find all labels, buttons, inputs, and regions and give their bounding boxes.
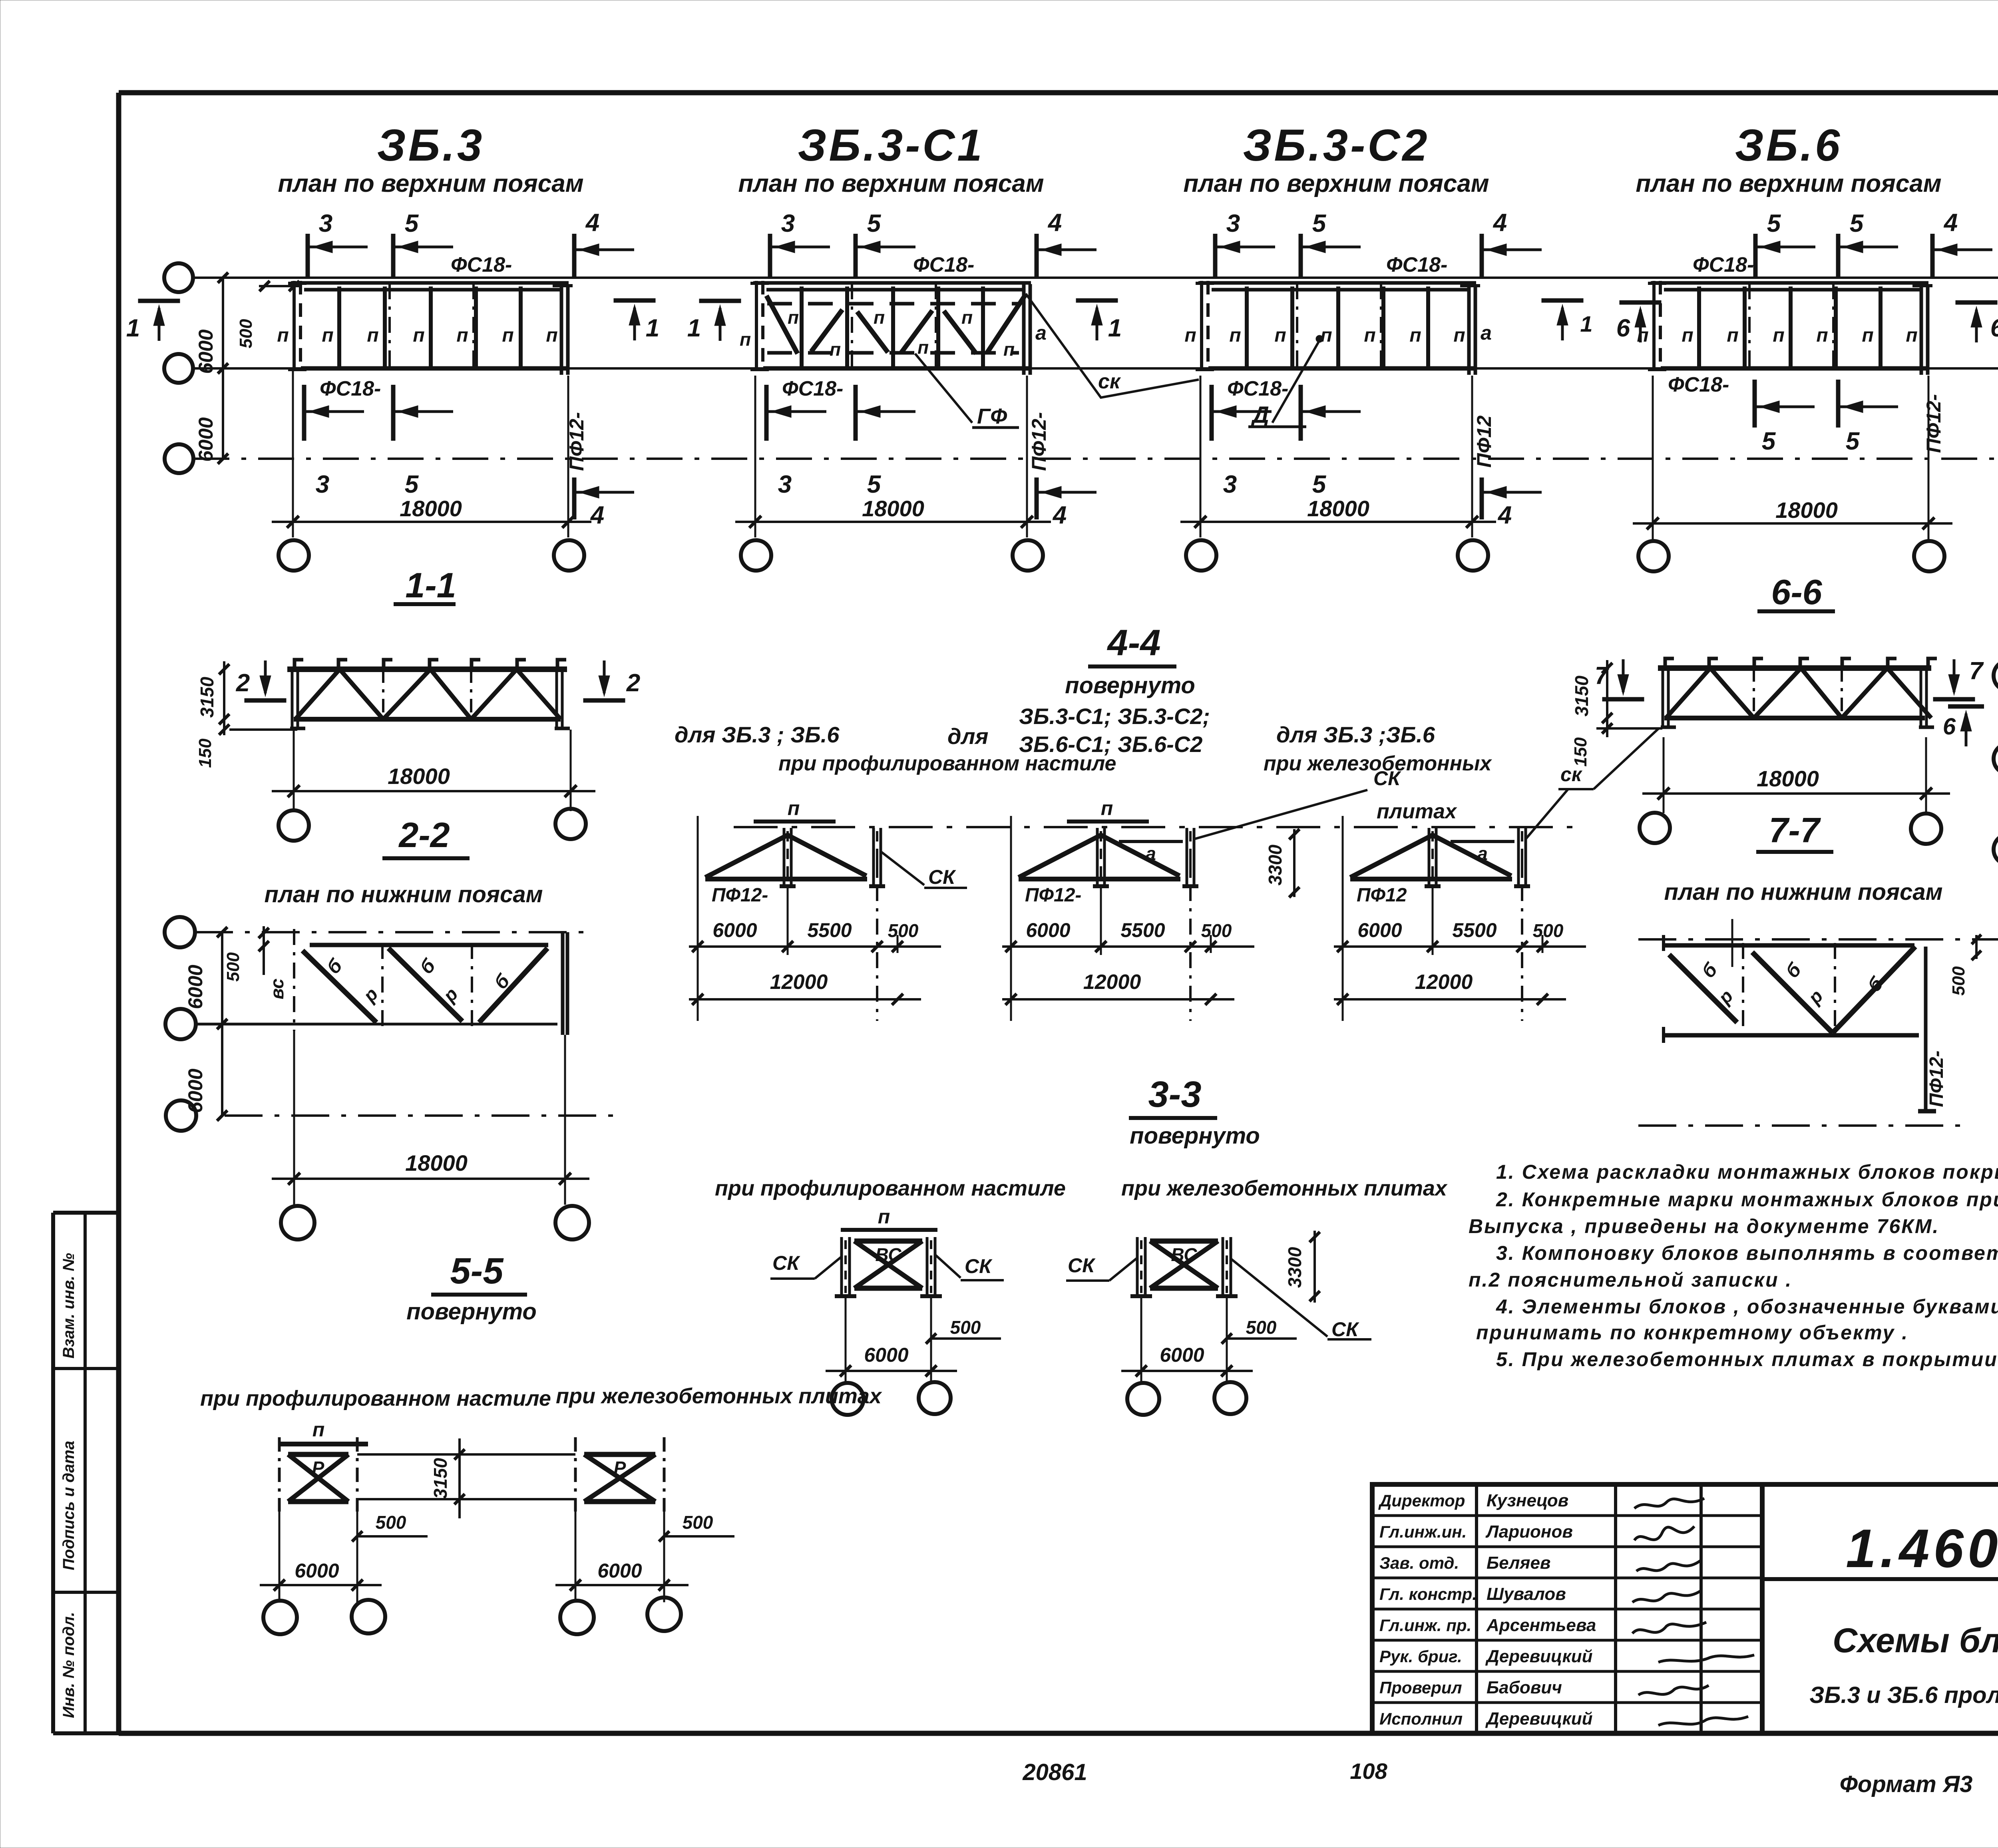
svg-text:п: п xyxy=(1229,325,1241,346)
section 5-5 sub2 dims xyxy=(555,1501,734,1602)
svg-text:п: п xyxy=(1816,325,1828,346)
svg-text:повернуто: повернуто xyxy=(1065,672,1195,698)
plan ZB.3-C1 mark 4 below right xyxy=(1037,477,1097,529)
svg-text:п: п xyxy=(1773,325,1784,346)
svg-text:ск: ск xyxy=(1098,370,1121,393)
notes text block xyxy=(1469,1161,1998,1371)
svg-text:для ЗБ.3 ;ЗБ.6: для ЗБ.3 ;ЗБ.6 xyxy=(1276,722,1435,747)
section 6-6 dim 18000 xyxy=(1642,737,1950,813)
section 1-1 dim 18000 xyxy=(272,730,595,811)
svg-text:п: п xyxy=(961,307,973,328)
section 2-2 dim 18000 xyxy=(272,1031,589,1205)
plan ZB.6-C2 grid circles xyxy=(1994,660,1998,865)
svg-text:план по верхним поясам: план по верхним поясам xyxy=(738,170,1044,197)
plan ZB.3-C2 mark 4 below right xyxy=(1482,477,1542,529)
plan ZB.3 mark 4 below right xyxy=(574,477,634,529)
svg-text:6000: 6000 xyxy=(1026,919,1070,941)
svg-text:20861: 20861 xyxy=(1022,1759,1087,1785)
svg-text:ВС: ВС xyxy=(875,1244,901,1265)
svg-text:Зав. отд.: Зав. отд. xyxy=(1379,1554,1459,1572)
svg-text:ГФ: ГФ xyxy=(977,404,1007,428)
plan ZB.3 label PF12 right column xyxy=(565,412,588,471)
svg-text:Взам. инв. №: Взам. инв. № xyxy=(60,1253,78,1359)
svg-text:7-7: 7-7 xyxy=(1769,810,1821,850)
svg-text:5: 5 xyxy=(867,471,882,498)
section 4-4 subtitle povernuto xyxy=(1065,672,1195,698)
title block signatures xyxy=(1632,1498,1754,1725)
svg-text:п: п xyxy=(878,1205,890,1228)
svg-text:1.460.3-19-81 КМ: 1.460.3-19-81 КМ xyxy=(1846,1518,1998,1579)
svg-text:1: 1 xyxy=(646,314,659,342)
svg-text:п: п xyxy=(1274,325,1286,346)
bottom codes xyxy=(1022,1758,1972,1797)
svg-text:3: 3 xyxy=(1226,210,1240,237)
plan ZB.3-C1 label FS18 above xyxy=(913,253,974,277)
section 2-2 label xyxy=(382,815,470,858)
plan ZB.3-C2 label a xyxy=(1481,322,1492,344)
section 1-1 bottom circles xyxy=(279,809,586,841)
plan ZB.3 label FS18 below xyxy=(320,377,381,400)
svg-text:18000: 18000 xyxy=(1775,497,1838,523)
section 7-7 label xyxy=(1756,810,1833,852)
svg-text:4: 4 xyxy=(1047,209,1062,237)
section 2-2 grid lines xyxy=(195,932,615,1116)
svg-text:а: а xyxy=(1477,843,1488,864)
svg-text:1: 1 xyxy=(1108,314,1122,342)
plan ZB.3-C1 block xyxy=(750,281,1031,375)
svg-text:а: а xyxy=(1146,843,1156,864)
svg-text:п: п xyxy=(1101,797,1113,820)
svg-text:1: 1 xyxy=(687,314,701,342)
svg-text:п: п xyxy=(917,337,929,358)
svg-text:18000: 18000 xyxy=(1307,496,1369,521)
plan ZB.3-C2 marks above 3,5,4 xyxy=(1215,209,1542,278)
svg-text:7: 7 xyxy=(1969,657,1984,685)
svg-text:6000: 6000 xyxy=(184,1068,207,1113)
svg-text:для: для xyxy=(947,724,988,749)
svg-text:Кузнецов: Кузнецов xyxy=(1487,1491,1568,1510)
left stamp column boxes xyxy=(53,1213,119,1733)
svg-text:6000: 6000 xyxy=(184,965,207,1009)
svg-text:ФС18-: ФС18- xyxy=(913,253,974,277)
svg-text:ЗБ.3-С1: ЗБ.3-С1 xyxy=(798,120,984,170)
svg-text:6000: 6000 xyxy=(1357,919,1402,941)
svg-text:п: п xyxy=(1862,325,1873,346)
svg-text:ПФ12-: ПФ12- xyxy=(1922,394,1945,453)
section 3-3 sub1 p overbar xyxy=(841,1205,937,1230)
plan ZB.6 view mark 6 right xyxy=(1956,302,1998,342)
svg-text:3: 3 xyxy=(1223,471,1237,498)
svg-text:вс: вс xyxy=(267,979,287,999)
section 1-1 view marks 2 xyxy=(236,660,287,700)
plan ZB.6 title xyxy=(1636,120,1941,197)
grid axis line A (top) xyxy=(193,278,1998,459)
svg-text:п: п xyxy=(1184,325,1196,346)
svg-text:ФС18-: ФС18- xyxy=(1227,377,1288,400)
section 3-3 sub2 cross brace VS xyxy=(1130,1237,1238,1296)
section 5-5 captions xyxy=(200,1384,882,1410)
svg-text:ЗБ.3-С2: ЗБ.3-С2 xyxy=(1243,120,1429,170)
plan ZB.3 bottom circles xyxy=(279,540,584,571)
section 3-3 label xyxy=(1129,1074,1217,1118)
plan ZB.3-C1 label a xyxy=(1035,322,1047,344)
plan ZB.6 view marks 1 and 6 left xyxy=(1542,300,1593,340)
svg-text:п: п xyxy=(788,307,799,328)
svg-text:12000: 12000 xyxy=(770,971,828,994)
svg-text:ПФ12: ПФ12 xyxy=(1357,885,1407,906)
svg-text:п: п xyxy=(546,325,557,346)
svg-text:6: 6 xyxy=(1990,314,1998,342)
section 3-3 sub2 SK lower-right leader xyxy=(1231,1259,1371,1341)
svg-text:5: 5 xyxy=(1850,210,1864,237)
section 6-6 SK leader xyxy=(1558,728,1659,789)
svg-text:3300: 3300 xyxy=(1284,1247,1305,1288)
section 3-3 sub1 cross brace VS xyxy=(835,1237,942,1296)
svg-text:Ларионов: Ларионов xyxy=(1485,1522,1573,1542)
svg-text:2: 2 xyxy=(236,669,250,697)
section 3-3 sub2 circles xyxy=(1127,1382,1246,1415)
svg-text:ЗБ.3: ЗБ.3 xyxy=(377,120,485,170)
plan ZB.3 section marks above: 3,5,4 xyxy=(308,209,634,278)
svg-text:4: 4 xyxy=(1497,501,1512,529)
svg-text:6000: 6000 xyxy=(1160,1344,1204,1366)
plan ZB.3-C1 title xyxy=(738,120,1044,197)
svg-text:п: п xyxy=(830,339,841,360)
section 5-5 sub1 dims xyxy=(260,1501,428,1602)
svg-text:6000: 6000 xyxy=(864,1344,908,1366)
svg-text:СК: СК xyxy=(1068,1254,1096,1277)
svg-text:СК: СК xyxy=(928,866,956,888)
title block role/name texts xyxy=(1378,1491,1596,1729)
svg-text:план по нижним поясам: план по нижним поясам xyxy=(265,881,543,907)
svg-text:3. Компоновку блоков вы: 3. Компоновку блоков выполнять в соответ… xyxy=(1496,1242,1998,1264)
title block name of sheet xyxy=(1809,1621,1998,1708)
svg-text:18000: 18000 xyxy=(862,496,924,521)
section 7-7 subtitle xyxy=(1664,879,1943,905)
plan ZB.3-C1 marks above 3,5,4 xyxy=(770,209,1097,278)
svg-text:1-1: 1-1 xyxy=(405,565,456,605)
plan ZB.3-C1 dim 18000 xyxy=(735,376,1051,537)
svg-text:ЗБ.3 и ЗБ.6 пролетом 18м: ЗБ.3 и ЗБ.6 пролетом 18м xyxy=(1809,1682,1998,1708)
svg-text:500: 500 xyxy=(236,319,256,348)
svg-text:Рук. бриг.: Рук. бриг. xyxy=(1379,1647,1462,1666)
svg-text:п: п xyxy=(1003,339,1015,360)
plan ZB.3-C2 title xyxy=(1183,120,1489,197)
svg-text:СК: СК xyxy=(1331,1318,1359,1341)
section 4-4 label xyxy=(1088,623,1176,666)
svg-text:п: п xyxy=(322,325,333,346)
svg-text:5: 5 xyxy=(1846,428,1860,455)
svg-text:п.2 пояснительной: п.2 пояснительной записки . xyxy=(1469,1269,1792,1291)
grid circles left xyxy=(164,263,193,473)
svg-text:ПФ12-: ПФ12- xyxy=(712,885,768,906)
section 2-2 grid circles xyxy=(165,917,196,1131)
section 7-7 bracing block xyxy=(1664,919,1936,1111)
svg-text:3150: 3150 xyxy=(197,676,217,718)
svg-text:ПФ12-: ПФ12- xyxy=(1926,1050,1947,1107)
svg-text:6000: 6000 xyxy=(195,329,217,374)
svg-text:4-4: 4-4 xyxy=(1107,623,1161,663)
section 6-6 view marks 7 xyxy=(1595,659,1644,699)
svg-text:Р: Р xyxy=(614,1458,626,1478)
svg-text:п: п xyxy=(367,325,378,346)
svg-text:п: п xyxy=(277,325,289,346)
section 5-5 sub2 cross brace R xyxy=(575,1437,664,1512)
plan ZB.3-C2 bottom circles xyxy=(1186,540,1488,571)
section 5-5 sub1 p overbar xyxy=(280,1418,368,1444)
svg-text:5: 5 xyxy=(1312,210,1327,237)
svg-text:при профилированном настиле: при профилированном настиле xyxy=(200,1386,551,1410)
section 2-2 subtitle xyxy=(265,881,543,907)
grid axis line C (bottom chain) xyxy=(193,458,1998,460)
svg-text:3150: 3150 xyxy=(430,1458,451,1499)
svg-text:ЗБ.3-С1; ЗБ.3-С2;: ЗБ.3-С1; ЗБ.3-С2; xyxy=(1019,704,1210,729)
grid axis line B (middle) xyxy=(193,367,1998,370)
svg-text:Деревицкий: Деревицкий xyxy=(1485,1709,1593,1729)
svg-text:150: 150 xyxy=(195,738,215,768)
plan ZB.3-C1 marks below 3,5 xyxy=(766,385,915,498)
title block document number xyxy=(1846,1518,1998,1579)
svg-text:Исполнил: Исполнил xyxy=(1379,1709,1463,1728)
svg-text:ФС18-: ФС18- xyxy=(451,253,512,277)
svg-text:2-2: 2-2 xyxy=(398,815,450,855)
svg-text:3-3: 3-3 xyxy=(1148,1074,1202,1115)
svg-text:500: 500 xyxy=(1533,920,1564,941)
svg-text:при железобетонных плитах: при железобетонных плитах xyxy=(1121,1176,1448,1200)
plan ZB.6 dim 18000 xyxy=(1633,376,1952,539)
svg-text:п: п xyxy=(413,325,424,346)
svg-text:500: 500 xyxy=(1246,1317,1277,1338)
svg-text:150: 150 xyxy=(1571,737,1590,767)
plan ZB.6 label PF12 xyxy=(1922,394,1945,453)
plan ZB.6 label FS18 below xyxy=(1668,373,1729,396)
svg-text:4: 4 xyxy=(1943,209,1958,237)
svg-text:18000: 18000 xyxy=(405,1150,468,1176)
section 5-5 sub2 circles xyxy=(560,1597,681,1634)
svg-text:принимать по конкретному: принимать по конкретному объекту . xyxy=(1476,1321,1908,1344)
section 2-2 bottom circles xyxy=(281,1206,589,1239)
section 7-7 grid chain lines xyxy=(1638,939,1998,1126)
svg-text:3: 3 xyxy=(778,471,792,498)
svg-text:3: 3 xyxy=(316,471,329,498)
svg-text:Гл.инж.ин.: Гл.инж.ин. xyxy=(1379,1522,1467,1541)
plan ZB.3 block xyxy=(288,281,573,375)
svg-text:6-6: 6-6 xyxy=(1771,572,1822,612)
plan ZB.3 section marks below: 3,5 xyxy=(304,385,453,498)
svg-text:ФС18-: ФС18- xyxy=(782,377,843,400)
section 3-3 sub1 circles xyxy=(832,1382,951,1415)
section 4-4 chain axis line xyxy=(734,826,1578,828)
svg-text:Гл. констр.: Гл. констр. xyxy=(1379,1585,1477,1603)
svg-text:плитах: плитах xyxy=(1377,800,1457,823)
svg-text:Выпуска , приведены на доку: Выпуска , приведены на документе 76КМ. xyxy=(1469,1215,1939,1237)
svg-text:500: 500 xyxy=(950,1317,981,1338)
svg-text:п: п xyxy=(1409,325,1421,346)
svg-text:5500: 5500 xyxy=(807,919,852,941)
plan ZB.6 block xyxy=(1648,281,1932,375)
section 3-3 subtitle povernuto xyxy=(1130,1123,1260,1149)
svg-text:п: п xyxy=(1682,325,1693,346)
plan ZB.3-C1 label PF12 xyxy=(1028,412,1050,471)
section 5-5 sub1 cross brace R xyxy=(279,1437,357,1512)
section 1-1 label xyxy=(394,565,456,605)
svg-text:18000: 18000 xyxy=(1757,766,1819,791)
section 4-4 sub-diagram 2 (C1/C2 blocks) xyxy=(1002,767,1401,1021)
plan ZB.3-C2 block xyxy=(1196,281,1480,375)
svg-text:Проверил: Проверил xyxy=(1379,1678,1462,1697)
svg-text:5: 5 xyxy=(1762,428,1776,455)
plan ZB.3 view mark 1 left xyxy=(126,301,180,342)
svg-text:Беляев: Беляев xyxy=(1487,1553,1551,1573)
svg-text:ВС: ВС xyxy=(1171,1244,1197,1265)
svg-text:Подпись и дата: Подпись и дата xyxy=(60,1441,78,1570)
svg-text:6000: 6000 xyxy=(712,919,757,941)
plan ZB.3 label FS18 above xyxy=(451,253,512,277)
svg-text:12000: 12000 xyxy=(1083,971,1141,994)
plan ZB.6 marks below 5,5 xyxy=(1755,380,1898,455)
svg-text:ФС18-: ФС18- xyxy=(1693,253,1754,277)
plan ZB.6 bottom circles xyxy=(1638,541,1944,571)
section 2-2 element letters b/r xyxy=(267,955,514,1007)
svg-text:СК: СК xyxy=(965,1255,993,1277)
svg-text:18000: 18000 xyxy=(388,764,450,789)
section 5-5 sub1 circles xyxy=(263,1600,385,1634)
svg-text:при профилированном настиле: при профилированном настиле xyxy=(778,752,1116,775)
svg-text:1. Схема раскладки монтажн: 1. Схема раскладки монтажных блоков покр… xyxy=(1496,1161,1998,1183)
svg-text:6000: 6000 xyxy=(597,1560,642,1582)
svg-text:Р: Р xyxy=(312,1458,324,1478)
plan ZB.6 marks above 5,5,4 xyxy=(1755,209,1992,278)
svg-text:п: п xyxy=(502,325,513,346)
svg-text:5: 5 xyxy=(1312,471,1327,498)
plan ZB.3 title xyxy=(278,120,583,197)
svg-text:п: п xyxy=(874,307,885,328)
svg-text:6: 6 xyxy=(1943,714,1956,740)
svg-text:план по верхним поясам: план по верхним поясам xyxy=(1636,170,1941,197)
svg-text:3: 3 xyxy=(319,210,332,237)
svg-text:СК: СК xyxy=(772,1252,800,1274)
svg-text:5: 5 xyxy=(405,210,419,237)
svg-text:2: 2 xyxy=(626,669,640,697)
svg-text:108: 108 xyxy=(1350,1758,1387,1784)
section 6-6 bottom circles xyxy=(1640,813,1941,844)
svg-text:п: п xyxy=(788,797,800,820)
svg-text:5: 5 xyxy=(405,471,419,498)
svg-text:п: п xyxy=(1453,325,1465,346)
plan ZB.3-C1 view mark 1 left xyxy=(687,301,741,342)
svg-text:500: 500 xyxy=(1949,966,1968,996)
section 6-6 label xyxy=(1757,572,1835,612)
plan ZB.3-C1 bottom circles xyxy=(741,540,1043,571)
svg-text:Схемы блоков: Схемы блоков xyxy=(1833,1621,1998,1660)
section 1-1 dims 3150/150 xyxy=(195,661,297,768)
svg-text:18000: 18000 xyxy=(400,496,462,521)
section 2-2 dims 500/6000/6000 xyxy=(184,926,269,1121)
svg-text:ПФ12-: ПФ12- xyxy=(1028,412,1050,471)
svg-text:ПФ12: ПФ12 xyxy=(1473,416,1495,468)
svg-text:5-5: 5-5 xyxy=(450,1251,504,1291)
svg-text:6000: 6000 xyxy=(295,1560,339,1582)
section 2-2 bracing block xyxy=(294,929,567,1035)
svg-text:Д: Д xyxy=(1250,402,1269,428)
svg-text:Бабович: Бабович xyxy=(1487,1678,1562,1697)
svg-text:при профилированном настиле: при профилированном настиле xyxy=(715,1176,1066,1200)
svg-text:п: п xyxy=(740,329,751,350)
plan ZB.6-C2 view mark 6 left xyxy=(1943,706,1984,746)
plan ZB.3 dim 500 xyxy=(236,281,300,348)
svg-text:3: 3 xyxy=(781,210,795,237)
plan ZB.3-C1 SK leader to joint xyxy=(1026,294,1199,398)
svg-text:Инв. № подл.: Инв. № подл. xyxy=(60,1612,78,1718)
section 3-3 sub1 dims xyxy=(826,1296,1001,1383)
svg-text:ФС18-: ФС18- xyxy=(1668,373,1729,396)
svg-text:а: а xyxy=(1481,322,1492,344)
svg-text:ФС18-: ФС18- xyxy=(320,377,381,400)
svg-text:4: 4 xyxy=(590,501,604,529)
svg-text:Шувалов: Шувалов xyxy=(1487,1584,1566,1604)
plan ZB.3-C1 label FS18 below xyxy=(782,377,843,400)
section 4-4 applicability captions xyxy=(675,704,1492,823)
section 5-5 subtitle povernuto xyxy=(406,1299,537,1325)
svg-text:500: 500 xyxy=(888,920,919,941)
section 3-3 sub2 dims xyxy=(1121,1296,1297,1383)
svg-text:2. Конкретные марки монтаж: 2. Конкретные марки монтажных блоков при… xyxy=(1496,1188,1998,1211)
svg-text:5: 5 xyxy=(1767,210,1781,237)
svg-text:для ЗБ.3 ; ЗБ.6: для ЗБ.3 ; ЗБ.6 xyxy=(675,722,840,747)
svg-text:6: 6 xyxy=(1616,314,1630,342)
svg-text:1: 1 xyxy=(126,314,140,342)
section 4-4 sub-diagram 3 (concrete slabs) xyxy=(1334,789,1586,1021)
section 7-7 right dims 500/6000/6000 xyxy=(1949,934,1998,1132)
svg-text:план по верхним поясам: план по верхним поясам xyxy=(1183,170,1489,197)
section 4-4 sub-diagram 1 (profiled deck) xyxy=(689,816,967,1021)
svg-text:3150: 3150 xyxy=(1571,675,1592,716)
svg-text:повернуто: повернуто xyxy=(1130,1123,1260,1149)
svg-text:Гл.инж. пр.: Гл.инж. пр. xyxy=(1379,1616,1471,1635)
svg-text:п: п xyxy=(1727,325,1738,346)
svg-text:п: п xyxy=(1906,325,1917,346)
svg-text:ПФ12-: ПФ12- xyxy=(1025,885,1081,906)
section 5-5 label xyxy=(431,1251,527,1295)
section 3-3 sub2 dim 3300 xyxy=(1284,1231,1320,1303)
svg-text:а: а xyxy=(1035,322,1047,344)
svg-text:Деревицкий: Деревицкий xyxy=(1485,1647,1593,1666)
svg-text:п: п xyxy=(312,1418,325,1441)
svg-text:Директор: Директор xyxy=(1378,1491,1465,1510)
section 6-6 truss xyxy=(1658,658,1937,727)
svg-text:3300: 3300 xyxy=(1265,844,1286,885)
svg-text:500: 500 xyxy=(1201,920,1232,941)
svg-text:5500: 5500 xyxy=(1452,919,1497,941)
svg-text:п: п xyxy=(1320,325,1332,346)
section 3-3 sub1 SK labels xyxy=(770,1252,1004,1280)
svg-text:4: 4 xyxy=(585,209,599,237)
svg-text:ЗБ.6: ЗБ.6 xyxy=(1735,120,1843,170)
svg-text:план по верхним поясам: план по верхним поясам xyxy=(278,170,583,197)
plan ZB.3-C2 label FS18 below xyxy=(1227,377,1288,400)
svg-text:500: 500 xyxy=(683,1512,713,1533)
svg-text:п: п xyxy=(1637,325,1648,346)
svg-text:при железобетонных плитах: при железобетонных плитах xyxy=(556,1384,882,1408)
svg-text:ФС18-: ФС18- xyxy=(1386,253,1447,277)
plan ZB.3 dim 18000 xyxy=(272,368,591,537)
plan ZB.3-C2 marks below 3,5 xyxy=(1212,385,1361,498)
section 3-3 sub2 SK label left xyxy=(1066,1254,1137,1281)
section 7-7 letters b/r xyxy=(1698,959,1947,1107)
section 6-6 dims 3150/150 xyxy=(1571,660,1662,767)
svg-text:5: 5 xyxy=(867,210,882,237)
svg-text:план по нижним поясам: план по нижним поясам xyxy=(1664,879,1943,905)
